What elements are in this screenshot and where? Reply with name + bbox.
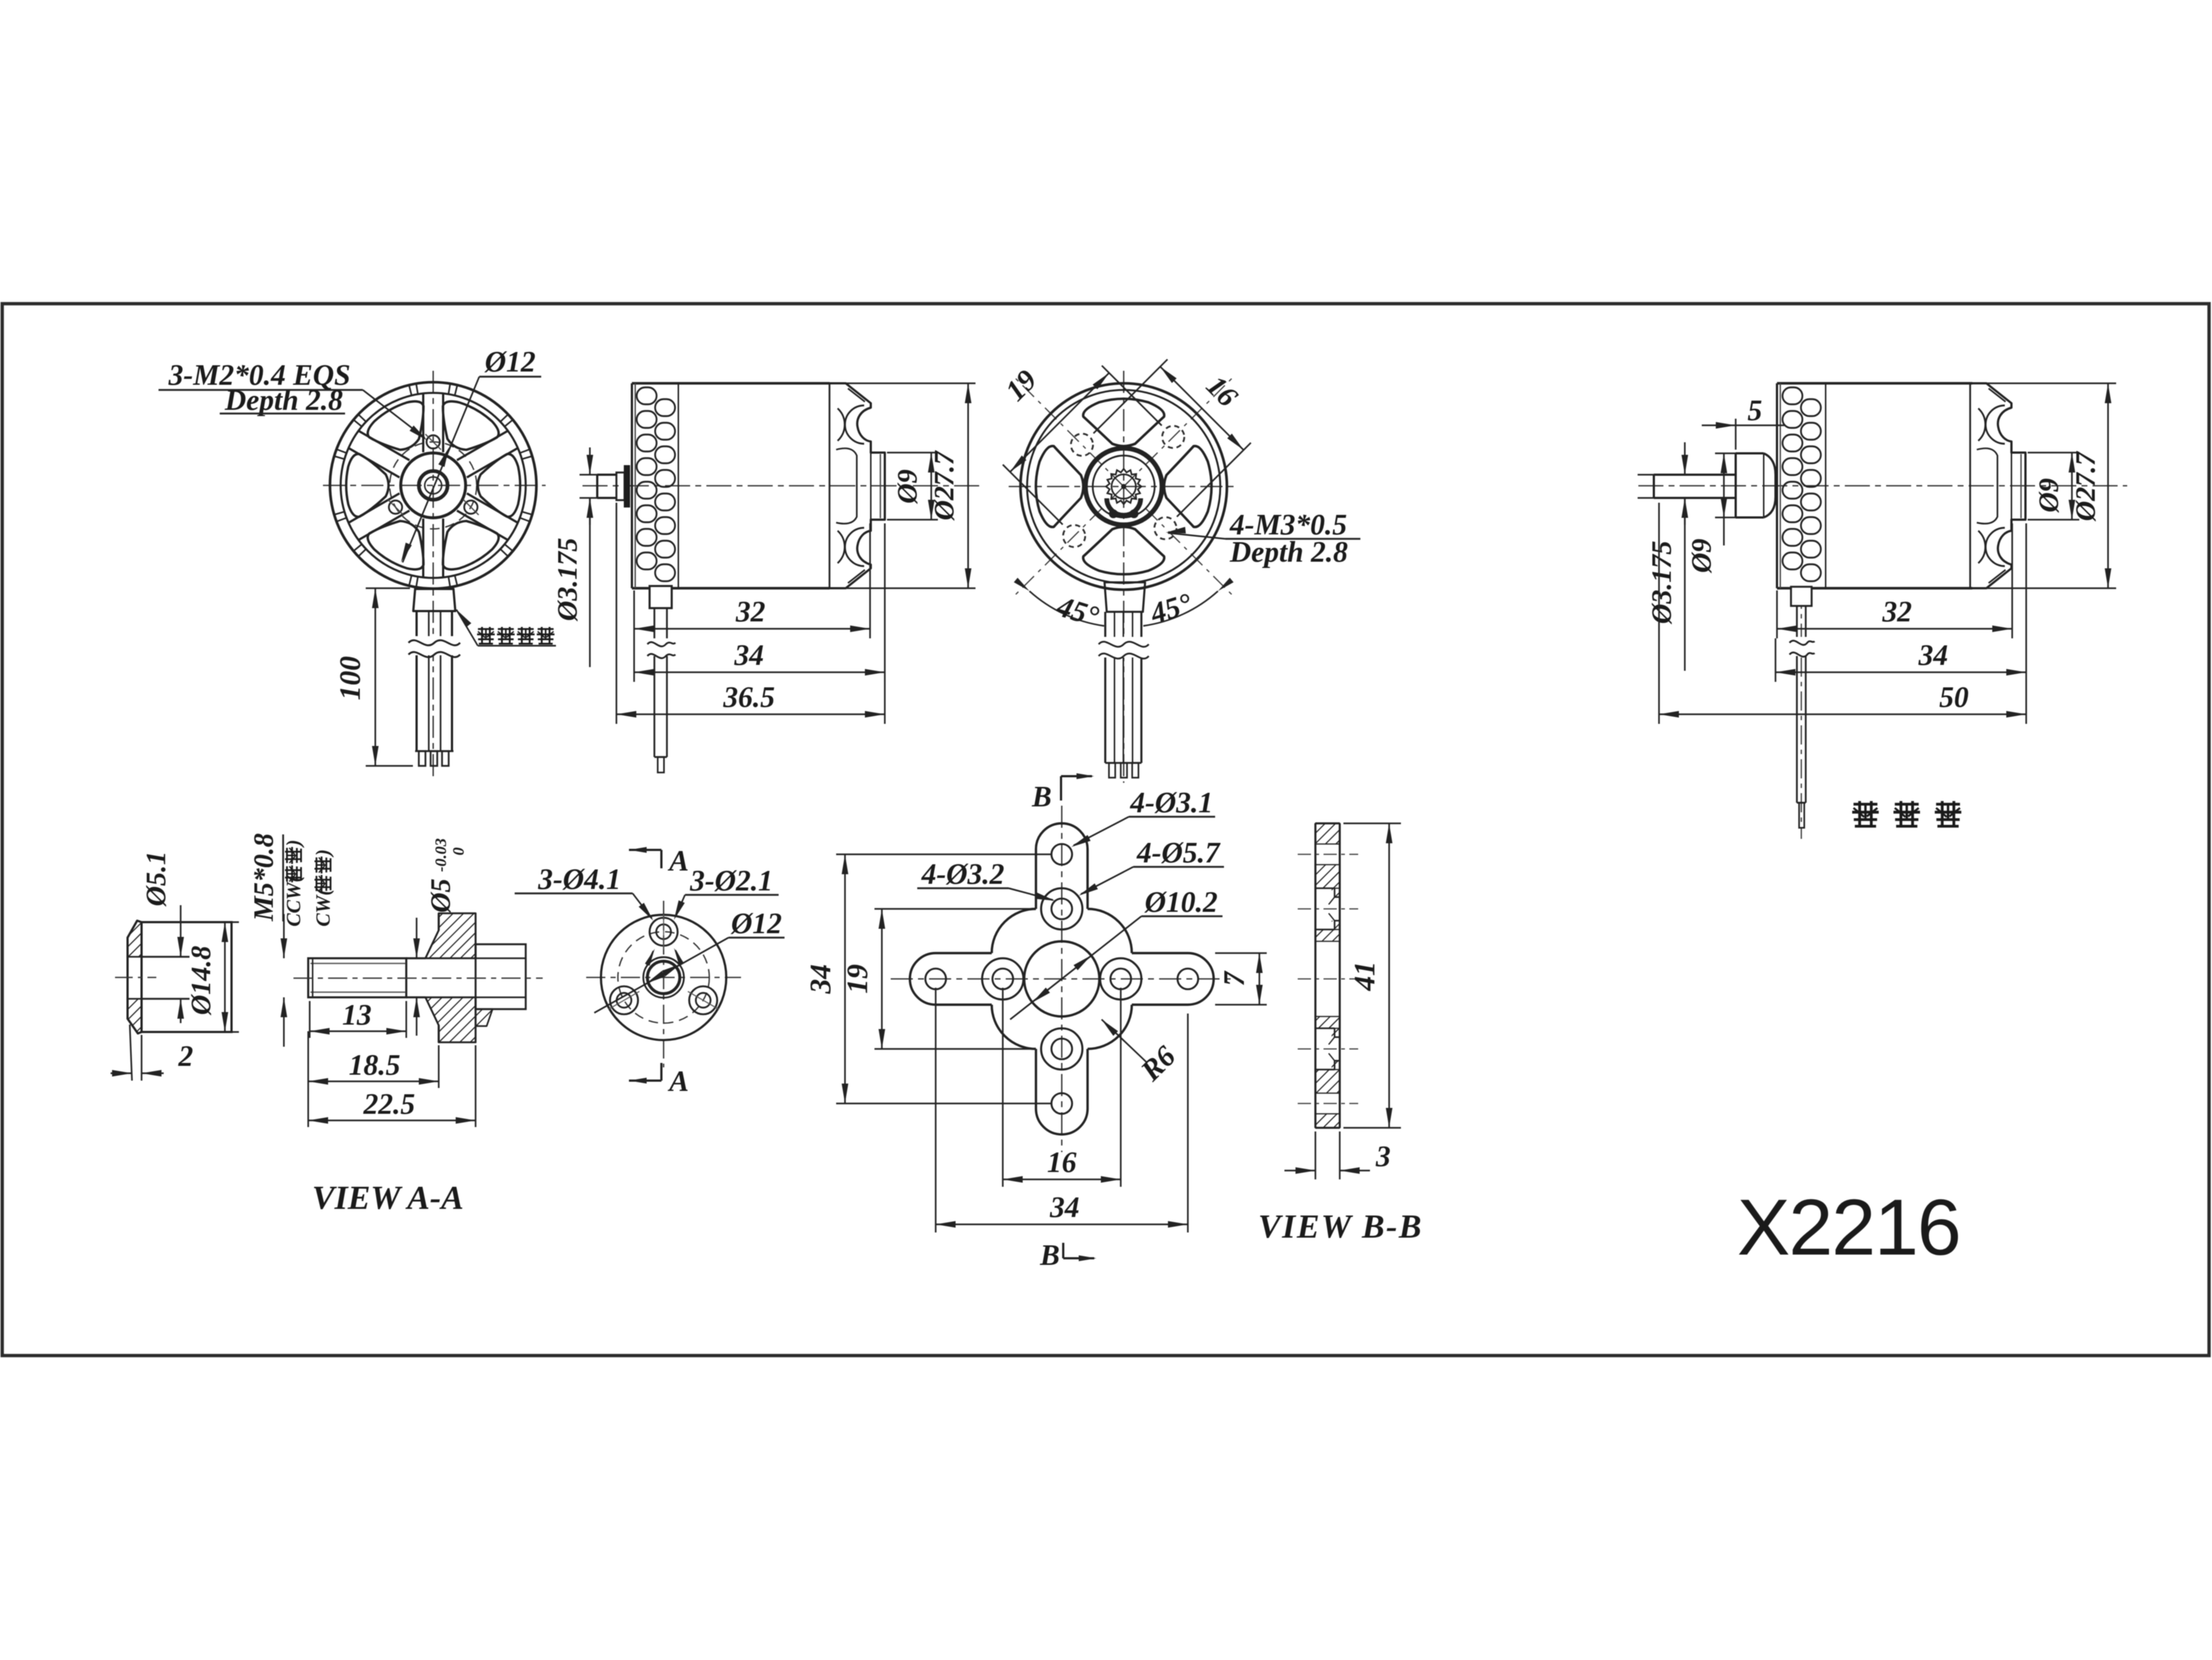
rear-shaft side view bell cooling slots: [1783, 388, 1821, 582]
rear view shaft end with knurl: [1106, 469, 1141, 504]
b-b section plate outline: [1315, 823, 1340, 1128]
dimension 16 (diagonal hole spacing): [1093, 360, 1251, 517]
rear shaft hanging down: [1790, 587, 1815, 828]
svg-text:4-Ø5.7: 4-Ø5.7: [1136, 836, 1221, 869]
rear view centerlines: [1009, 371, 1239, 783]
label heat-shrink tube (Chinese) with leader: [456, 610, 556, 646]
rear view mount windows (4): [1036, 399, 1211, 574]
dimension O9 (rear boss, side view): [887, 453, 938, 520]
front view centerlines: [323, 371, 546, 780]
side view bell cooling slots: [637, 388, 675, 582]
svg-text:3-Ø2.1: 3-Ø2.1: [689, 864, 773, 897]
x-mount center bore O10.2: [1024, 941, 1099, 1016]
svg-text:7: 7: [1217, 970, 1251, 986]
label 3-O4.1 with leader: [515, 862, 653, 921]
prop adapter on shaft: [1736, 453, 1775, 517]
svg-text:Ø3.175: Ø3.175: [552, 538, 583, 622]
b-b section feature centerlines: [1298, 854, 1358, 1103]
svg-text:Ø3.175: Ø3.175: [1646, 541, 1677, 625]
rear-shaft side view bell housing: [1777, 383, 1972, 588]
x-mount counterbored holes O5.7/O3.2: [982, 888, 1141, 1070]
rear-shaft side view mount ring profile: [1970, 383, 2025, 588]
front view rotor windows (outer ring of 6): [347, 402, 521, 570]
front view shaft hole: [419, 471, 448, 500]
dimension 34 (side view): [634, 523, 885, 682]
svg-text:34: 34: [1049, 1190, 1079, 1224]
prop flange 3 holes: [609, 914, 719, 1014]
section mark B-B bottom: [1040, 1238, 1096, 1272]
svg-text:41: 41: [1348, 961, 1381, 991]
dimension 2 (prop nut flange): [111, 1025, 193, 1081]
prop shaft centerline: [293, 977, 543, 979]
svg-text:100: 100: [333, 656, 366, 700]
caption VIEW B-B: [1258, 1207, 1423, 1245]
label 4-O3.1 with leader: [1071, 786, 1215, 847]
svg-text:13: 13: [342, 998, 372, 1031]
rear-shaft side view front shaft stub: [1654, 475, 1736, 498]
svg-text:A: A: [667, 844, 689, 877]
prop nut bore lines: [142, 957, 189, 999]
svg-text:CCW(: CCW(: [282, 874, 305, 927]
prop flange centerlines: [586, 901, 741, 1067]
rear view motor lead collar: [1105, 582, 1145, 612]
dimension 19 (x-mount): [841, 909, 1032, 1049]
svg-text:Ø27.7: Ø27.7: [2070, 450, 2101, 522]
dimension O9 (adapter): [1686, 453, 1738, 573]
prop flange bolt circle (dashed): [618, 932, 709, 1023]
front view bolt circle (dashed): [390, 442, 477, 529]
prop nut tapered flange outline: [128, 921, 142, 1033]
svg-text:Ø5.1: Ø5.1: [141, 851, 172, 907]
dimension 36.5 (side view): [616, 503, 885, 724]
dimension O3.175 (rear shaft view): [1638, 442, 1688, 671]
label 4-O5.7 with leader: [1079, 836, 1224, 896]
label O12 with leader through hub: [401, 345, 541, 562]
svg-text:Ø10.2: Ø10.2: [1144, 885, 1218, 918]
svg-text:A: A: [667, 1064, 689, 1098]
prop nut hatched flange walls: [128, 921, 142, 1033]
svg-text:3: 3: [1375, 1140, 1391, 1173]
side view hanging motor wires: [647, 586, 675, 773]
svg-text:32: 32: [1882, 595, 1912, 628]
dimension 3 (b-b thickness): [1284, 1131, 1391, 1179]
svg-text:16: 16: [1047, 1145, 1077, 1179]
svg-text:Ø9: Ø9: [892, 470, 923, 504]
rear view inner rim circle: [1027, 390, 1220, 583]
inner callout arrows at prop flange top hole: [645, 948, 684, 966]
rear view wire tips: [1109, 763, 1138, 778]
prop shaft threaded section: [308, 958, 406, 997]
prop nut centerline: [115, 977, 156, 978]
side view rear mount ring profile: [829, 383, 885, 588]
svg-text:VIEW B-B: VIEW B-B: [1258, 1207, 1423, 1245]
dimension O3.175 (front shaft): [552, 447, 599, 667]
dimension 50 (rear-shaft view): [1659, 503, 2026, 724]
drawing border frame: [2, 304, 2209, 1356]
rear view diagonal centerlines 45deg: [1012, 375, 1234, 597]
side view shaft collar and washer: [616, 465, 630, 508]
prop shaft flange cross-section: [425, 913, 476, 1042]
rear view 4 screw holes M3 (dashed): [1063, 426, 1184, 547]
svg-text:M5*0.8: M5*0.8: [248, 833, 279, 921]
front view hub circle (O12): [401, 453, 466, 518]
svg-text:0: 0: [449, 848, 467, 856]
front view motor lead collar: [414, 589, 456, 611]
rear view outer circle: [1020, 383, 1227, 590]
dimension 34 (mount height, left): [804, 854, 1051, 1103]
svg-text:34: 34: [734, 638, 764, 672]
x-mount end holes O3.1: [925, 844, 1198, 1114]
x-mount outline with rounded arms: [910, 823, 1214, 1134]
front view rim notches at spoke joints: [335, 384, 532, 587]
svg-text:Depth 2.8: Depth 2.8: [224, 383, 343, 416]
prop shaft neck: [406, 958, 425, 997]
dimension O14.8 (prop nut): [142, 922, 239, 1032]
svg-text:34: 34: [1918, 638, 1948, 672]
svg-text:3-Ø4.1: 3-Ø4.1: [538, 862, 621, 896]
front view rim inner circle: [341, 393, 526, 578]
svg-text:Ø9: Ø9: [2034, 478, 2065, 513]
b-b section hatch bands: [1315, 823, 1340, 1128]
dimension 34 (x-mount bottom): [936, 988, 1188, 1232]
dimension 41 (b-b): [1343, 823, 1401, 1128]
label rear output shaft (Chinese): [1852, 801, 1961, 826]
dimension 5 (adapter): [1702, 394, 1784, 450]
front view outer bell circle: [330, 383, 537, 589]
svg-text:Ø9: Ø9: [1686, 539, 1717, 573]
side view bell housing outline: [632, 383, 829, 588]
prop shaft boss with bore: [476, 944, 526, 1026]
label O10.2 with leader: [1010, 885, 1222, 1019]
svg-text:Ø27.7: Ø27.7: [929, 450, 960, 521]
dimension O27.7 (rear-shaft view): [1973, 383, 2116, 588]
dimension 34 (rear-shaft view): [1775, 523, 2026, 682]
svg-text:Depth 2.8: Depth 2.8: [1229, 535, 1348, 568]
dimension 7 (arm width): [1215, 953, 1267, 1005]
label O12 with leader (prop flange): [594, 907, 785, 1013]
section mark B-B top: [1032, 773, 1094, 813]
svg-text:2: 2: [178, 1039, 193, 1073]
side view centerline: [582, 485, 981, 487]
side view front shaft: [597, 475, 616, 498]
dimension O5 -0.03 (shaft seat): [414, 838, 468, 1036]
section mark A-A bottom: [629, 1063, 689, 1098]
svg-text:Ø12: Ø12: [731, 907, 782, 940]
dimension 13 (thread length): [310, 998, 406, 1038]
label 3-O2.1 with leader: [674, 864, 779, 920]
svg-text:B: B: [1032, 780, 1052, 813]
section mark A-A top: [629, 844, 689, 877]
label 3-M2*0.4 EQS with leader: [159, 358, 428, 441]
svg-text:Ø14.8: Ø14.8: [186, 946, 217, 1016]
svg-text:Ø5: Ø5: [425, 879, 456, 913]
caption VIEW A-A: [312, 1179, 464, 1216]
svg-text:5: 5: [1747, 394, 1762, 427]
dimension 16 (x-mount): [1003, 988, 1121, 1187]
svg-text:34: 34: [804, 964, 837, 994]
svg-text:VIEW A-A: VIEW A-A: [312, 1179, 464, 1216]
svg-text:4-Ø3.1: 4-Ø3.1: [1130, 786, 1213, 819]
front view 3 screw holes M2 on bolt circle: [388, 434, 479, 515]
prop flange outer circle: [601, 915, 726, 1040]
front view wire bundle: [408, 611, 460, 751]
dimension 22.5: [308, 1045, 476, 1127]
svg-text:B: B: [1040, 1238, 1060, 1272]
svg-text:CW(: CW(: [312, 887, 334, 927]
label R6 with leader: [1102, 1019, 1182, 1088]
svg-text:Ø12: Ø12: [484, 345, 536, 378]
dimension O5.1 (prop nut bore): [141, 851, 184, 1023]
svg-text:32: 32: [735, 595, 765, 628]
model number X2216: [1737, 1182, 1960, 1272]
front view spokes: [349, 394, 518, 578]
prop flange hub and bore: [644, 958, 684, 998]
svg-text:4-Ø3.2: 4-Ø3.2: [921, 857, 1004, 890]
svg-text:X2216: X2216: [1737, 1182, 1960, 1272]
rear view shaft retaining clip: [1107, 498, 1141, 518]
rear view wire bundle: [1099, 612, 1149, 763]
svg-text:-0.03: -0.03: [431, 838, 450, 872]
x-mount centerlines: [891, 806, 1233, 1152]
dimension 19 (diagonal hole spacing): [998, 363, 1161, 524]
front view wire tips: [415, 751, 453, 766]
label 4-M3*0.5 Depth 2.8 with leader: [1166, 508, 1360, 568]
dimension O27.7 (side view): [832, 383, 975, 588]
rear view bearing boss circle: [1085, 448, 1162, 525]
rear-shaft side view centerline: [1638, 486, 2127, 839]
svg-text:18.5: 18.5: [349, 1048, 400, 1081]
b-b section counterbores: [1315, 888, 1340, 1070]
rear view 45deg angle dimensions: [1014, 578, 1234, 633]
svg-text:19: 19: [841, 964, 874, 994]
dimension 32 (rear-shaft view): [1777, 523, 2012, 638]
dimension 32 (side view): [634, 523, 870, 638]
svg-text:22.5: 22.5: [363, 1087, 415, 1120]
svg-text:36.5: 36.5: [723, 680, 775, 714]
prop nut body outline: [142, 922, 232, 1032]
dimension O9 (rear boss, rear-shaft view): [2028, 453, 2079, 520]
dimension 100 (wire length): [333, 588, 413, 766]
svg-text:50: 50: [1939, 680, 1969, 714]
dimension 18.5: [308, 1031, 439, 1088]
label 4-O3.2 with leader: [917, 857, 1055, 901]
dimension M5*0.8 with CW/CCW notes: [248, 833, 334, 1047]
